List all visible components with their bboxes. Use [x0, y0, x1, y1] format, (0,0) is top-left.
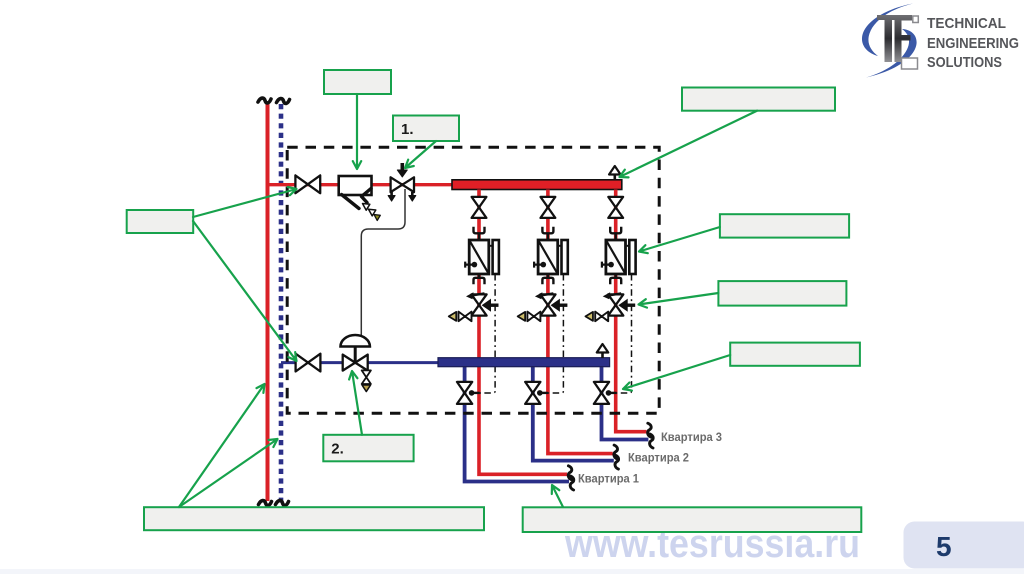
heat meter 2 (flow sensor + calculator) [534, 240, 568, 274]
apartment 3 supply branch pipe [616, 190, 647, 432]
callout arrow to balancing valve 3 [623, 355, 730, 391]
balancing valve on return branch 2 [525, 382, 548, 404]
balancing valve on return branch 3 [594, 382, 617, 404]
heat meter 1 capillary line (dash-dot) [478, 274, 496, 393]
apartment 2 return branch pipe [533, 364, 614, 461]
break mark apartment 3 supply end [648, 423, 652, 437]
callout arrow to control valve 3 [639, 293, 719, 308]
break mark apartment 2 return end [615, 455, 619, 469]
callout box: inlet valves label [127, 210, 194, 233]
blue return riser (dashed vertical) [279, 104, 284, 501]
apartment 1 return branch pipe [465, 364, 569, 482]
callout box: apartment connections label [523, 507, 862, 532]
svg-text:SOLUTIONS: SOLUTIONS [927, 54, 1002, 71]
air vent on supply manifold [609, 166, 621, 180]
callout box: balancing valve label [730, 343, 860, 366]
svg-text:Квартира 2: Квартира 2 [628, 451, 689, 465]
company logo TE swoosh [862, 4, 918, 78]
logo text TECHNICAL ENGINEERING SOLUTIONS [927, 15, 1019, 71]
svg-text:Квартира 3: Квартира 3 [661, 430, 722, 444]
callout arrow to blue riser [179, 439, 278, 507]
callout box: air vent label [682, 88, 835, 111]
blue return pipe from manifold to riser [281, 361, 440, 364]
isolating valve on branch 2 [541, 197, 556, 218]
strainer (dirt trap) on supply [339, 176, 381, 221]
callout box: strainer label [324, 70, 391, 94]
capillary impulse tube from valve 1 to regulator 2 [361, 189, 405, 337]
svg-text:2.: 2. [331, 441, 344, 458]
drain valve on branch 3 [585, 312, 608, 322]
apartment 1 supply branch pipe [479, 190, 567, 475]
heat meter 2 capillary line (dash-dot) [546, 274, 564, 393]
drain on regulator 2 [362, 370, 371, 391]
callout box: heat meter label [720, 214, 849, 237]
union fitting above heat meter 1 [474, 227, 485, 240]
break mark bottom of blue riser [276, 501, 289, 506]
svg-text:Квартира 1: Квартира 1 [578, 471, 639, 485]
ball valve on return outlet [296, 354, 321, 372]
break mark top of blue riser [277, 99, 290, 104]
thermostatic control valve on branch 1 [466, 292, 499, 315]
union fitting above heat meter 3 [610, 227, 621, 240]
callout arrow from box 1 to valve 1 [405, 141, 436, 168]
break mark apartment 1 supply end [568, 466, 572, 480]
thermostatic control valve on branch 2 [535, 292, 568, 315]
callout box: risers label [144, 507, 484, 530]
svg-text:TECHNICAL: TECHNICAL [927, 15, 1006, 32]
heat meter 3 capillary line (dash-dot) [615, 274, 632, 393]
callout box 2. [323, 435, 413, 462]
heat meter 1 (flow sensor + calculator) [465, 240, 499, 274]
union fitting above heat meter 2 [542, 227, 553, 240]
callout arrow to red riser [179, 384, 265, 507]
ball valve on supply inlet [295, 175, 320, 193]
control valve 1 (automatic balancing valve) [388, 163, 416, 201]
isolating valve on branch 1 [472, 197, 487, 218]
union fitting below heat meter 3 [610, 274, 621, 284]
red supply pipe from riser to manifold [268, 183, 456, 186]
red supply riser [266, 103, 270, 501]
heat meter 3 (flow sensor + calculator) [602, 240, 636, 274]
break mark apartment 2 supply end [614, 445, 618, 459]
apartment 2 supply branch pipe [548, 190, 613, 454]
break mark apartment 1 return end [570, 476, 574, 490]
callout arrow from box 2 to regulator [349, 371, 362, 435]
callout arrow to apartment 1 pipes [552, 485, 563, 507]
drain valve on branch 2 [518, 312, 541, 322]
apartment 3 return branch pipe [602, 364, 649, 440]
callout arrow to strainer [353, 94, 361, 169]
callout arrow to heat meter 3 [639, 227, 720, 253]
callout arrow to return ball valve [193, 221, 297, 361]
callout box 1. [393, 116, 459, 142]
pressure regulator 2 with diaphragm actuator [341, 335, 370, 371]
isolating valve on branch 3 [608, 197, 623, 218]
break mark top of red riser [258, 98, 271, 103]
dashed boundary of apartment distribution unit [287, 147, 659, 413]
union fitting below heat meter 1 [474, 274, 485, 284]
callout arrow to supply ball valve [193, 187, 297, 217]
svg-text:1.: 1. [401, 121, 414, 138]
callout arrow to air vent [620, 111, 758, 178]
svg-text:ENGINEERING: ENGINEERING [927, 35, 1019, 52]
balancing valve on return branch 1 [457, 382, 480, 404]
supply manifold (red header) [452, 180, 622, 190]
break mark bottom of red riser [259, 501, 272, 506]
break mark apartment 3 return end [650, 434, 654, 448]
page number plate 5 [904, 522, 1024, 569]
drain valve on branch 1 [449, 312, 472, 322]
callout box: thermostatic valve label [718, 281, 846, 306]
air vent on return manifold [597, 344, 609, 358]
union fitting below heat meter 2 [542, 274, 553, 284]
thermostatic control valve on branch 3 [603, 292, 636, 315]
return manifold (blue header) [438, 358, 610, 367]
svg-text:5: 5 [936, 531, 952, 562]
